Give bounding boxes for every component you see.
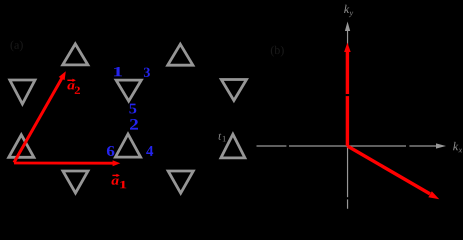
axis label ky letter k xyxy=(344,5,349,13)
down triangle D4 xyxy=(63,171,88,193)
label a2 subscript 2 xyxy=(75,87,80,94)
site label 1 xyxy=(114,67,122,76)
site label 6 xyxy=(107,146,115,156)
site label 3 xyxy=(144,68,150,77)
hopping label t1 subscript 1 xyxy=(223,136,226,142)
down triangle D2 xyxy=(116,80,141,101)
site label 4 xyxy=(146,146,153,156)
reciprocal vector b2 (vertical red arrow) xyxy=(344,43,351,146)
panel label (a) xyxy=(11,41,23,52)
axis label kx letter k xyxy=(453,142,458,150)
up triangle U3 xyxy=(9,135,34,158)
tick mark (dark) on kx axis left xyxy=(286,144,289,147)
label a1 letter a xyxy=(112,179,119,185)
ky axis xyxy=(345,22,350,209)
down triangle D1 xyxy=(10,80,35,104)
tick mark (dark) on kx axis right xyxy=(406,144,409,147)
tick mark (dark) on ky axis upper (over red arrow) xyxy=(346,94,350,96)
reciprocal vector b1 (diagonal red arrow) xyxy=(347,146,439,199)
tick mark (dark) on ky axis lower xyxy=(346,197,350,199)
lattice vector a1 arrow xyxy=(14,160,120,166)
label a1 vector arrow hat xyxy=(112,174,120,177)
down triangle D3 xyxy=(221,80,246,101)
site label 5 xyxy=(129,104,136,114)
up triangle U5 xyxy=(221,134,245,158)
down triangle D5 xyxy=(168,171,193,193)
kx axis xyxy=(257,143,447,148)
lattice vector a2 arrow xyxy=(14,71,66,162)
axis label kx subscript x xyxy=(459,149,463,153)
up triangle U2 xyxy=(168,44,193,65)
hopping label t1 letter t xyxy=(219,133,222,139)
label a2 vector arrow hat xyxy=(67,79,76,82)
label a1 subscript 1 xyxy=(120,181,126,188)
axis label ky subscript y xyxy=(349,12,353,17)
up triangle U4 xyxy=(115,134,140,157)
up triangle U1 xyxy=(63,44,88,65)
panel label (b) xyxy=(271,46,284,57)
site label 2 xyxy=(130,119,138,130)
label a2 letter a xyxy=(67,83,74,89)
